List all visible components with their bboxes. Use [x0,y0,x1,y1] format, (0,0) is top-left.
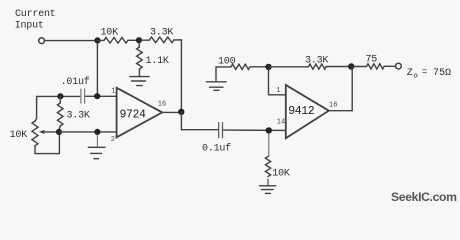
node H [266,127,272,133]
pin 14 (U2) [277,118,285,126]
svg-text:16: 16 [158,100,166,108]
wiper arrow of R4 [44,131,57,133]
resistor R9 10K vertical [265,157,270,177]
resistor R2 3.3K [150,37,174,43]
pin 1 (U1) [111,88,115,96]
svg-text:75Ω: 75Ω [433,68,451,79]
wire node F to ground [96,135,98,146]
svg-text:100: 100 [218,57,236,68]
ground under node F [88,147,105,158]
wire node J to R8 [351,66,366,68]
svg-text:1: 1 [111,88,115,96]
label 10K (R4 pot) [10,130,28,141]
svg-text:9412: 9412 [288,105,315,118]
svg-text:9724: 9724 [120,109,147,122]
node A [94,37,100,43]
label 0.1uf (C2) [202,143,231,155]
capacitor C1 .01uf [81,89,85,103]
wire U2 output up to node J [329,67,352,111]
svg-text:10K: 10K [101,28,119,39]
node G [178,109,184,115]
svg-text:SeekIC.com: SeekIC.com [391,190,457,204]
pin 2 (U1) [111,136,115,144]
svg-text:75: 75 [366,55,378,66]
label Current Input [15,9,56,32]
potentiometer R4 10K [32,121,38,146]
ground under R3 [130,77,149,86]
wire R5 to node E [59,126,60,130]
wire top input rail left segment [37,95,80,97]
wire input to node A [45,40,94,42]
wire node H to R9 [268,134,270,157]
svg-text:1.1K: 1.1K [146,56,169,67]
output terminal [396,63,402,69]
node J [348,63,354,69]
svg-text:2: 2 [111,136,115,144]
label Zo = 75 ohm [407,66,451,81]
svg-text:3.3K: 3.3K [305,56,328,67]
label 75 (R8) [366,55,378,66]
label 3.3K (R5) [67,111,90,122]
wire R7 to node J [326,66,351,68]
wire R6 to node I [250,66,265,68]
wire R2 to feedback corner down to node G [174,40,181,112]
node I [265,64,271,70]
svg-text:Current: Current [15,9,56,20]
label 10K (R1) [101,28,119,39]
svg-text:0.1uf: 0.1uf [202,143,231,155]
wire node B to R2 [139,39,150,41]
wire left rail down to potentiometer [35,96,36,121]
wire node A to R1 [98,39,105,41]
label 3.3K (R2) [150,28,173,39]
op-amp U1 9724 [117,88,163,138]
op-amp U2 9412 [286,85,329,138]
node E [56,129,62,135]
label 100 (R6) [218,57,236,68]
wire R1 to node B [128,39,139,41]
wire pot bottom loop to node E [35,135,59,154]
wire C1 to op-amp U1 pin 1 [86,95,117,97]
wire R3 to ground [138,69,140,76]
node D [57,93,63,99]
label 9724 (U1) [120,109,147,122]
svg-text:3.3K: 3.3K [67,111,90,122]
resistor R6 100 [231,64,250,69]
wire ground up to R6 [216,67,231,81]
resistor R3 1.1K [137,47,143,69]
svg-text:14: 14 [277,118,285,126]
svg-text:3.3K: 3.3K [150,28,173,39]
svg-text:10K: 10K [272,168,290,179]
wire R9 to ground [267,179,269,185]
svg-text:1: 1 [276,87,280,95]
capacitor C2 0.1uf [219,123,223,138]
ground under R9 [260,186,276,194]
wire node I down to U2 pin 1 [269,70,286,95]
svg-text:=: = [422,66,428,77]
node B [136,37,142,43]
wire node B down to R3 [138,43,140,47]
svg-text:.01uf: .01uf [61,76,90,88]
label .01uf (C1) [61,76,90,88]
wire node D to R5 [59,96,61,103]
svg-text:Input: Input [15,21,44,32]
svg-text:10K: 10K [10,130,28,141]
svg-text:Z: Z [407,68,413,79]
pin 16 (U1) [158,100,166,108]
ground for R6 100 [207,82,227,91]
wire node I to R7 [269,66,309,68]
wire node A down to node C [96,43,98,94]
svg-text:16: 16 [329,102,337,110]
input terminal [39,38,45,44]
wire R8 to output terminal [384,65,395,67]
pin 1 (U2) [276,87,280,95]
wire node G down to C2 [181,112,218,130]
wire U1 output to node G [162,111,178,113]
label 10K (R9) [272,168,290,179]
label 1.1K (R3) [146,56,169,67]
resistor R1 10K [104,38,128,44]
resistor R5 3.3K vertical [57,103,63,126]
label 3.3K (R7) [305,56,328,67]
pin 16 (U2) [329,102,337,110]
node C [94,93,100,99]
wire bottom rail node E to op-amp U1 [59,131,117,133]
wire C2 to op-amp U2 pin 14 [224,129,286,131]
resistor R7 3.3K [309,64,327,69]
resistor R8 75 [367,64,385,69]
svg-text:o: o [413,73,418,81]
node F [94,129,100,135]
label 9412 (U2) [288,105,315,118]
